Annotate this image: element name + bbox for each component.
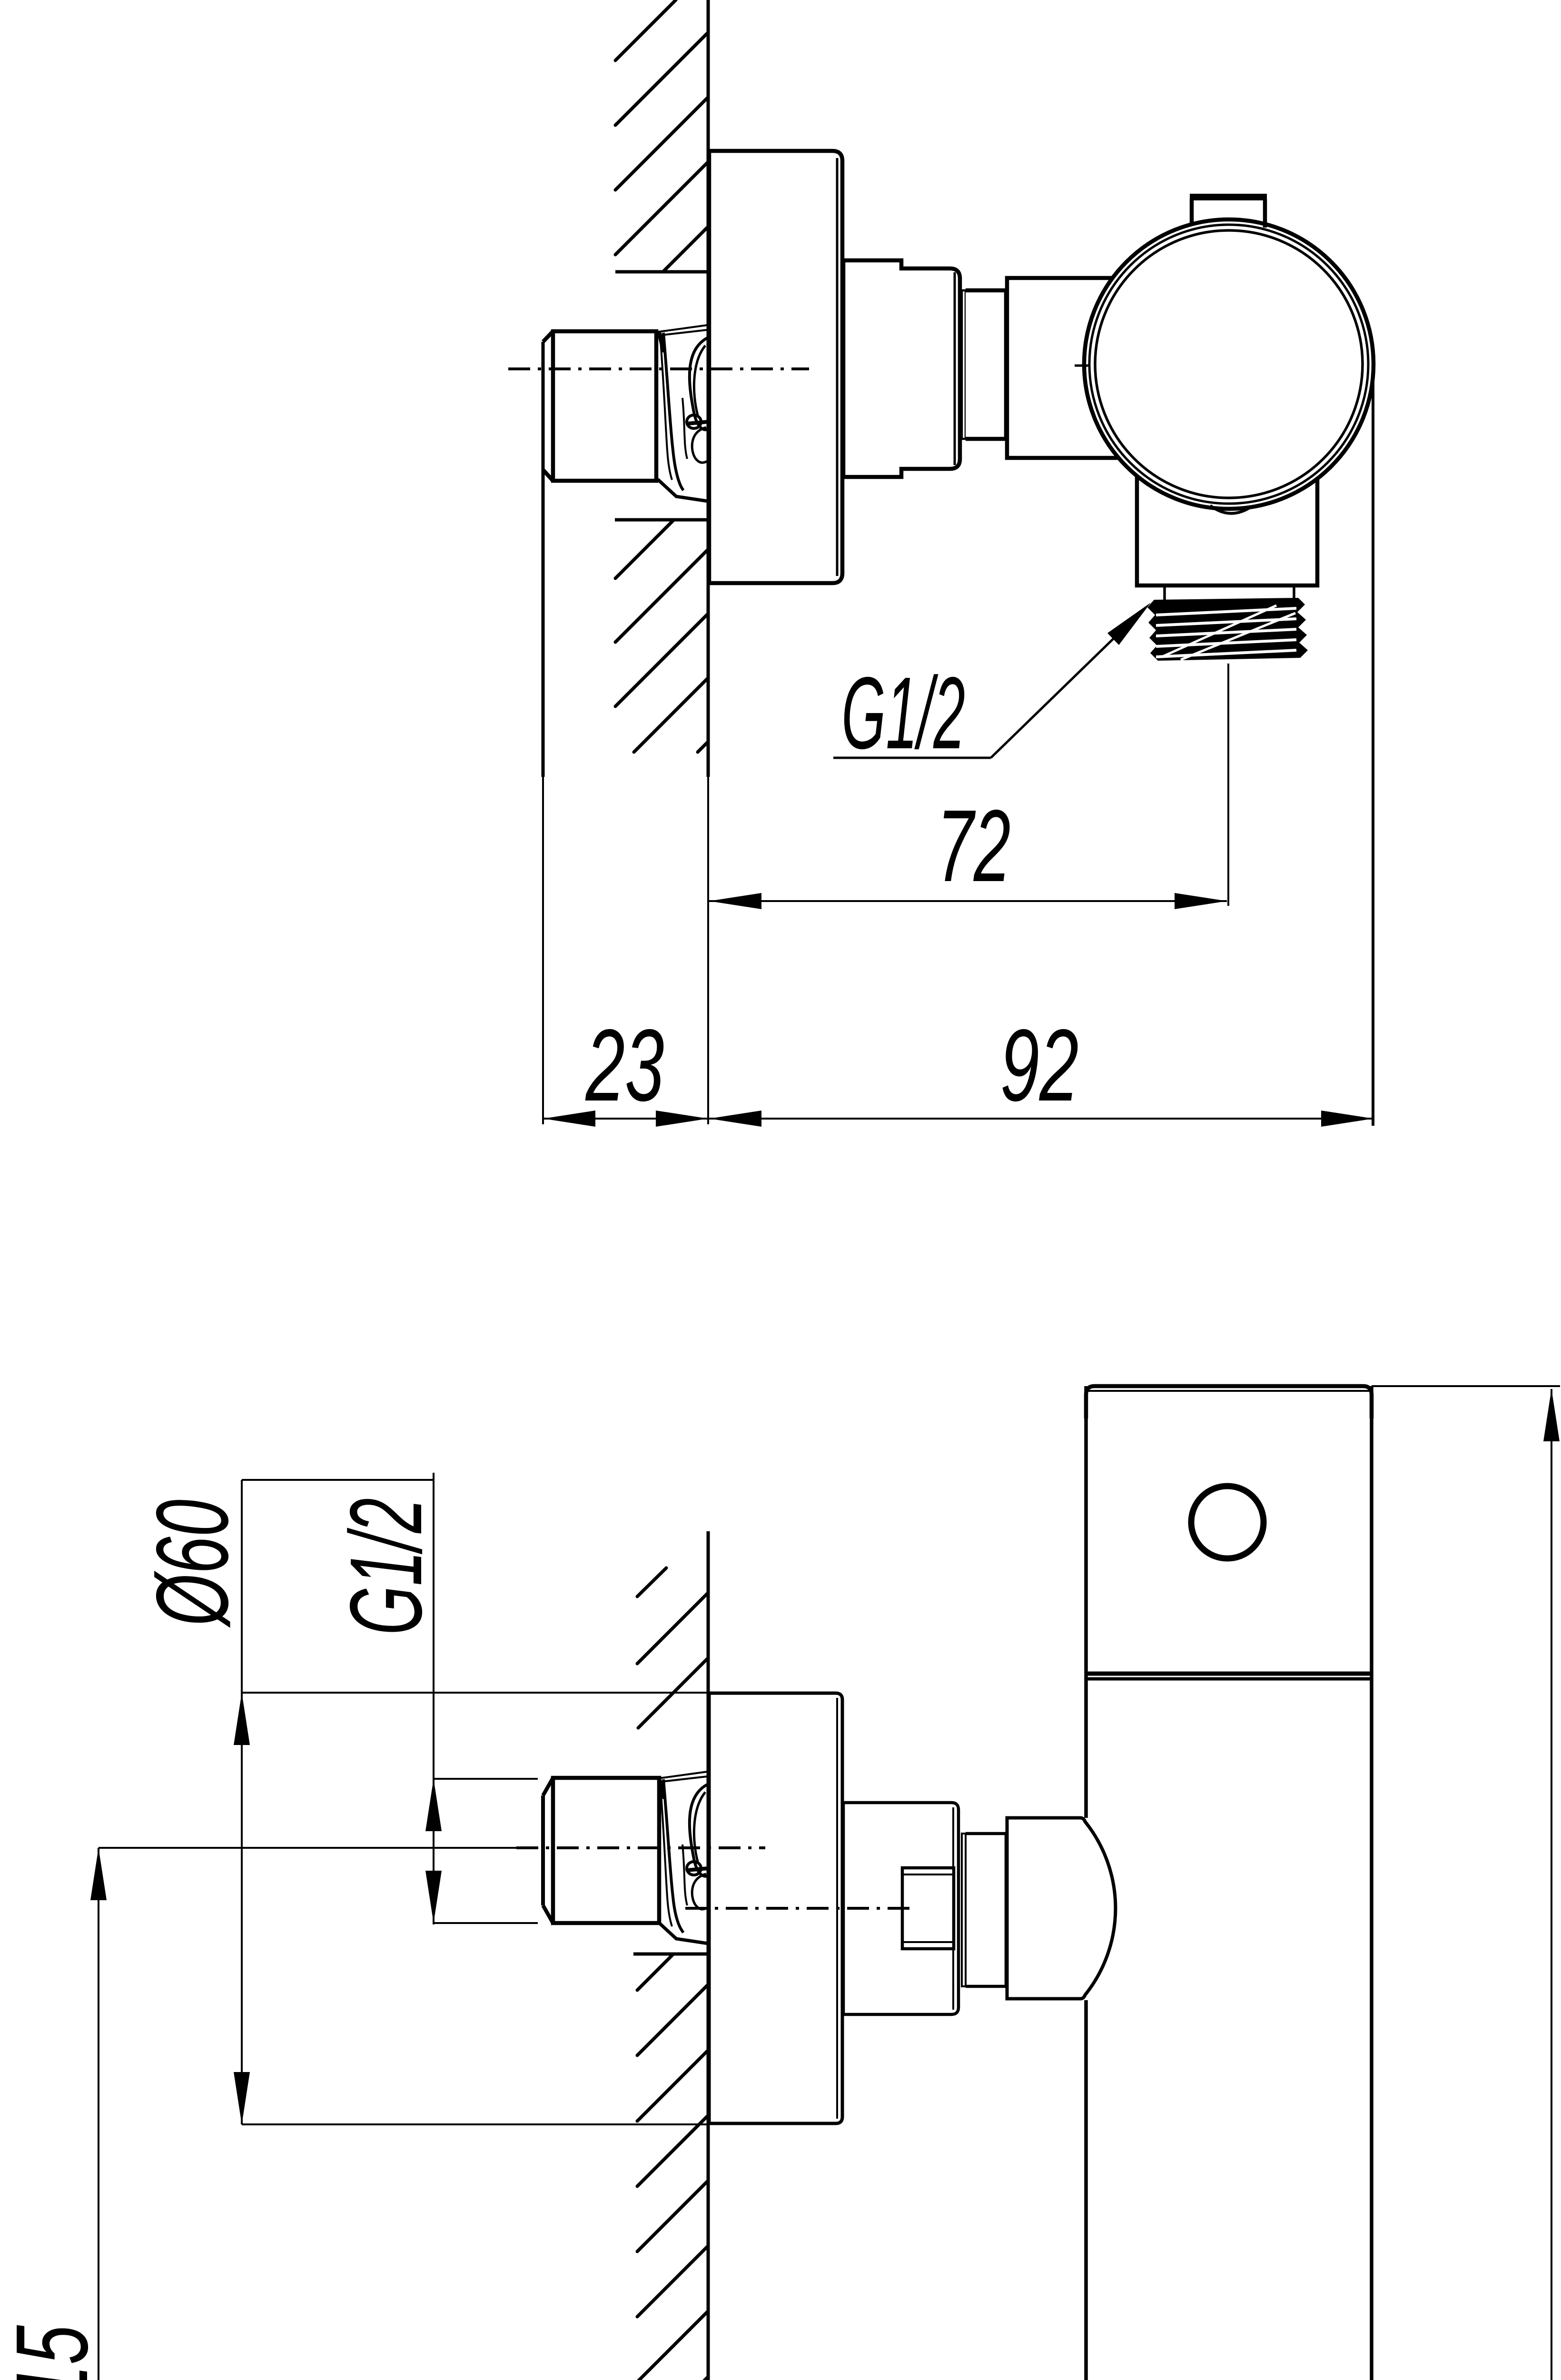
escutcheon flange (top view) [709, 151, 842, 583]
centerline upper nipple axis [99, 1847, 765, 1849]
svg-text:23: 23 [585, 1008, 664, 1122]
wall hatching band B (front view) [633, 1954, 708, 2380]
wall hatching lower band (top view) [615, 520, 708, 752]
mount washer ring (upper) [962, 1834, 966, 1986]
mount adapter cylinder (upper) [966, 1834, 1007, 1986]
wall hatching band A (front view) [637, 1568, 708, 1728]
svg-text:150±15: 150±15 [0, 2325, 109, 2380]
dimension D60 upper flange [135, 1480, 709, 2124]
column joint upper [1086, 1674, 1372, 1679]
centerline upper mount axis [685, 1907, 911, 1910]
wall surface line (front view) [707, 1531, 710, 2380]
outlet centerline extension (top view) [1227, 664, 1229, 906]
dimension 23 (top view) [543, 1008, 708, 1127]
wall hatching upper band (top view) [615, 0, 708, 272]
wall section (top view) - surface line [707, 0, 710, 1124]
washer ring (top view) [962, 290, 966, 439]
wall section (top view) - back line [542, 342, 545, 1124]
dimension 72 (top view) [709, 788, 1227, 909]
label G1/2 with leader (top view) [833, 603, 1151, 770]
outlet thread G1/2 (top view) [1147, 598, 1308, 661]
outlet block below knob (top view) [1137, 476, 1317, 585]
body right edge extension (top view) [1372, 367, 1374, 1126]
centerline inlet axis (top view) [508, 367, 809, 370]
dimension 150 +/-15 between axes [0, 1848, 109, 2380]
shower column left edge [1084, 1386, 1088, 2380]
sleeve body (top view) [843, 260, 960, 477]
dimension 295 column length [1372, 1386, 1561, 2380]
svg-text:92: 92 [1000, 1008, 1079, 1122]
dimension G1/2 upper nipple [242, 1473, 538, 1924]
mount square adapter (upper) [902, 1868, 954, 1949]
shower column right edge [1370, 1386, 1373, 2380]
column top cap [1086, 1386, 1372, 1418]
mount sleeve (upper) [843, 1803, 958, 2014]
inlet nipple tapered thread (top view) [658, 325, 708, 501]
adapter cylinder (top view) [966, 290, 1006, 439]
valve body block (top view) [1007, 278, 1118, 458]
svg-text:G1/2: G1/2 [841, 655, 965, 770]
svg-text:G1/2: G1/2 [328, 1498, 443, 1635]
outlet thread stubs (top view) [1165, 586, 1294, 601]
mount nipple tapered thread (upper) [658, 1772, 708, 1944]
inlet nipple hex (top view) [543, 331, 656, 481]
mount body elbow (upper) [1007, 1818, 1116, 1999]
svg-text:Ø60: Ø60 [135, 1499, 249, 1628]
mount inlet hex nipple (upper) [543, 1778, 659, 1923]
control knob circle (top view) [1075, 219, 1373, 509]
svg-text:72: 72 [937, 788, 1011, 903]
upper mounting screw hole [1191, 1486, 1264, 1558]
dimension 92 (top view) [709, 1008, 1373, 1127]
mount escutcheon flange (upper) [709, 1693, 842, 2123]
knob top button (top view) [1190, 196, 1267, 228]
